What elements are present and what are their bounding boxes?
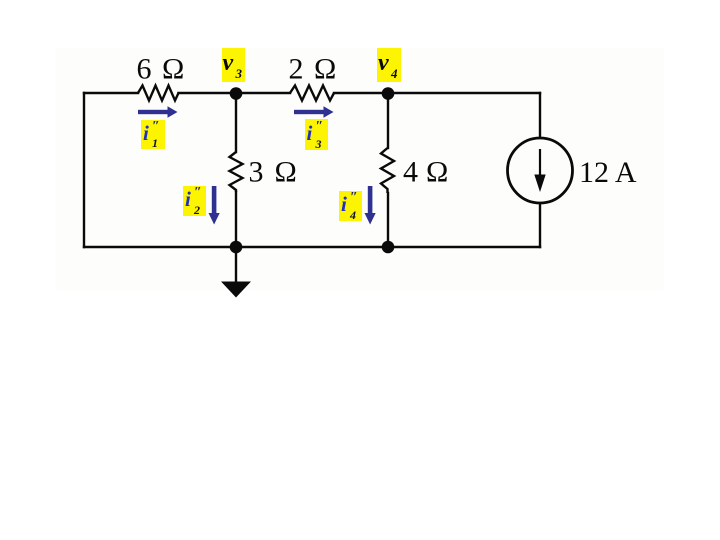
svg-text:2 Ω: 2 Ω xyxy=(289,53,337,86)
resistor R1 6 ohm xyxy=(138,86,179,101)
wire top: 6ohm to node v3 xyxy=(179,92,237,94)
current arrow i4 xyxy=(365,186,376,225)
wire top: 2ohm to node v4 xyxy=(334,92,388,94)
wire left vertical xyxy=(83,93,85,247)
current label i3 xyxy=(305,119,329,150)
wire bottom xyxy=(84,246,540,248)
svg-text:3 Ω: 3 Ω xyxy=(249,156,297,189)
wire node v4 down to 4ohm resistor xyxy=(387,93,389,148)
wire 3ohm resistor to bottom node xyxy=(235,192,237,247)
svg-text:6 Ω: 6 Ω xyxy=(137,53,185,86)
current arrow i1 xyxy=(138,106,178,117)
svg-text:4 Ω: 4 Ω xyxy=(403,156,448,189)
current source I1 12 A xyxy=(508,138,573,203)
node bottom-left junction dot xyxy=(230,241,243,254)
wire 4ohm resistor to bottom node xyxy=(387,193,389,247)
node v3 junction dot xyxy=(230,87,243,100)
resistor R3 3 ohm xyxy=(230,152,243,192)
resistor R4 4 ohm xyxy=(381,148,394,193)
node label v4 xyxy=(377,48,401,82)
node bottom-right junction dot xyxy=(382,241,395,254)
current label i4 xyxy=(339,191,362,221)
current arrow i3 xyxy=(294,106,334,117)
wire right vertical above current source xyxy=(539,93,541,138)
current arrow i2 xyxy=(209,186,220,225)
svg-text:12 A: 12 A xyxy=(579,156,637,189)
current label i1 xyxy=(141,120,165,149)
wire node v3 down to 3ohm resistor xyxy=(235,93,237,152)
wire top-left segment xyxy=(84,92,138,94)
wire top: node v3 to 2ohm xyxy=(236,92,290,94)
current label i2 xyxy=(183,186,206,216)
wire right vertical below current source xyxy=(539,203,541,247)
ground xyxy=(221,247,251,298)
wire top: node v4 to right corner xyxy=(388,92,540,94)
node label v3 xyxy=(222,48,246,82)
resistor R2 2 ohm xyxy=(290,86,334,101)
node v4 junction dot xyxy=(382,87,395,100)
